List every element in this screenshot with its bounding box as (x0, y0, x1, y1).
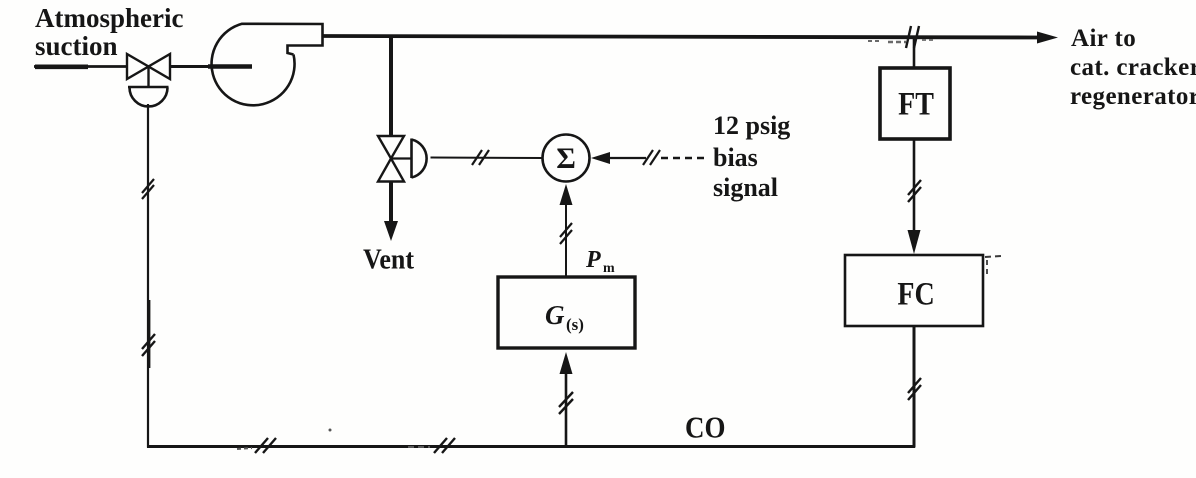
svg-text:suction: suction (35, 31, 118, 61)
valve V2 (vent valve) (378, 136, 404, 182)
svg-text:Vent: Vent (363, 243, 414, 274)
label: Air to cat. cracker regenerator (1070, 25, 1196, 110)
wire: vent branch drop (389, 37, 393, 137)
wire: FC output down to CO line (913, 326, 916, 448)
block FT (flow transmitter) (880, 68, 950, 139)
svg-text:G: G (545, 300, 565, 330)
label: Atmospheric suction (35, 3, 183, 61)
svg-text:signal: signal (713, 173, 778, 202)
svg-text:bias: bias (713, 143, 758, 172)
wire: suction line into valve (34, 65, 128, 68)
wire: CO signal up into G(s) (560, 352, 573, 374)
svg-text:regenerator: regenerator (1070, 83, 1196, 110)
blower / compressor (212, 24, 323, 106)
speckle (329, 429, 332, 432)
arrow: air to cat cracker (1037, 32, 1058, 44)
wire: actuator A2 to summer (pneumatic) (431, 157, 544, 160)
wire: bottom CO line (147, 445, 915, 448)
svg-text:Σ: Σ (556, 142, 576, 175)
wire: FT to FC with arrow (913, 139, 916, 232)
wire: main line down to FT (913, 37, 916, 69)
svg-text:FC: FC (897, 275, 934, 312)
valve V1 (suction butterfly valve) (127, 54, 170, 79)
svg-text:Air to: Air to (1071, 25, 1136, 52)
label: Pm (585, 247, 615, 276)
wire: vent outlet with arrow (389, 182, 393, 229)
svg-text:P: P (585, 247, 601, 273)
scan artifacts near FC corner (985, 256, 1002, 257)
wire: feedback line from actuator A1 down left side (147, 104, 149, 448)
svg-text:FT: FT (898, 85, 934, 122)
svg-text:(s): (s) (566, 315, 584, 334)
block G(s) (498, 277, 635, 348)
actuator A2 (diaphragm on vent valve) (391, 157, 412, 159)
svg-text:m: m (603, 261, 615, 276)
orifice marks on main line (906, 26, 911, 48)
wire: Pm signal up into summer (560, 184, 573, 205)
hash marks (472, 150, 482, 165)
svg-text:CO: CO (685, 411, 725, 445)
wire: bias signal into summer (591, 152, 610, 164)
block FC (flow controller) (845, 255, 983, 326)
scan smudges near orifice (868, 40, 882, 42)
svg-text:Atmospheric: Atmospheric (35, 3, 183, 33)
svg-text:12 psig: 12 psig (713, 111, 790, 140)
wire: main discharge air line (323, 36, 1041, 38)
svg-text:cat. cracker: cat. cracker (1070, 54, 1196, 81)
label: 12 psig bias signal (713, 111, 790, 202)
wire: valve to blower (169, 65, 252, 68)
actuator A1 (diaphragm on suction valve) (147, 67, 149, 88)
summer (sigma) (543, 135, 590, 182)
